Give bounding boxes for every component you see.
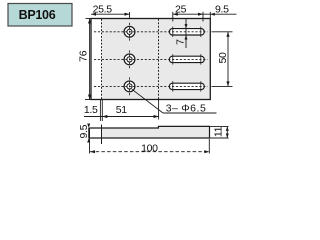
side view step line bbox=[101, 125, 103, 145]
dimension 76 bbox=[78, 19, 92, 100]
dimension 7 (slot width) bbox=[174, 19, 187, 48]
slot S2 bbox=[169, 54, 204, 64]
svg-text:7: 7 bbox=[174, 39, 186, 45]
dimension 9.5 (side view) bbox=[78, 124, 90, 143]
hidden step line (dotted) at middle bbox=[158, 19, 160, 99]
svg-text:100: 100 bbox=[141, 142, 158, 154]
svg-text:11: 11 bbox=[213, 126, 225, 137]
svg-text:76: 76 bbox=[78, 50, 90, 62]
svg-text:51: 51 bbox=[116, 104, 128, 116]
leader 3-phi6.5 bbox=[132, 89, 217, 114]
side view outline bbox=[89, 126, 209, 138]
svg-text:3– Φ6.5: 3– Φ6.5 bbox=[166, 103, 207, 115]
svg-text:9.5: 9.5 bbox=[215, 4, 229, 16]
svg-text:25: 25 bbox=[175, 4, 187, 16]
part label BP106 box bbox=[8, 4, 72, 27]
hole H3 bbox=[124, 77, 135, 95]
svg-text:9.5: 9.5 bbox=[78, 124, 90, 138]
svg-text:25.5: 25.5 bbox=[93, 4, 113, 16]
dimension 51 (bottom) bbox=[102, 100, 158, 120]
hole H1 bbox=[124, 23, 135, 41]
slot S1 bbox=[169, 27, 204, 37]
dimension 1.5 (bottom) bbox=[84, 100, 102, 121]
dimension 11 (side view) bbox=[210, 126, 229, 138]
dimension 25 bbox=[173, 4, 203, 22]
svg-text:BP106: BP106 bbox=[19, 8, 56, 22]
svg-text:50: 50 bbox=[217, 52, 229, 64]
center line row 1 bbox=[94, 31, 208, 33]
slot S3 bbox=[169, 81, 204, 91]
hole H2 bbox=[124, 50, 135, 68]
svg-text:1.5: 1.5 bbox=[84, 104, 98, 116]
dimension 100 (side view) bbox=[90, 139, 210, 155]
dimension 25.5 bbox=[91, 4, 130, 19]
hidden step line (dotted) at left bbox=[101, 19, 103, 99]
dimension 9.5 (top right) bbox=[203, 4, 237, 18]
center line row 2 bbox=[94, 58, 208, 60]
front view plate outline bbox=[91, 19, 210, 100]
dimension 50 (right) bbox=[212, 32, 233, 87]
center line row 3 bbox=[94, 85, 208, 87]
